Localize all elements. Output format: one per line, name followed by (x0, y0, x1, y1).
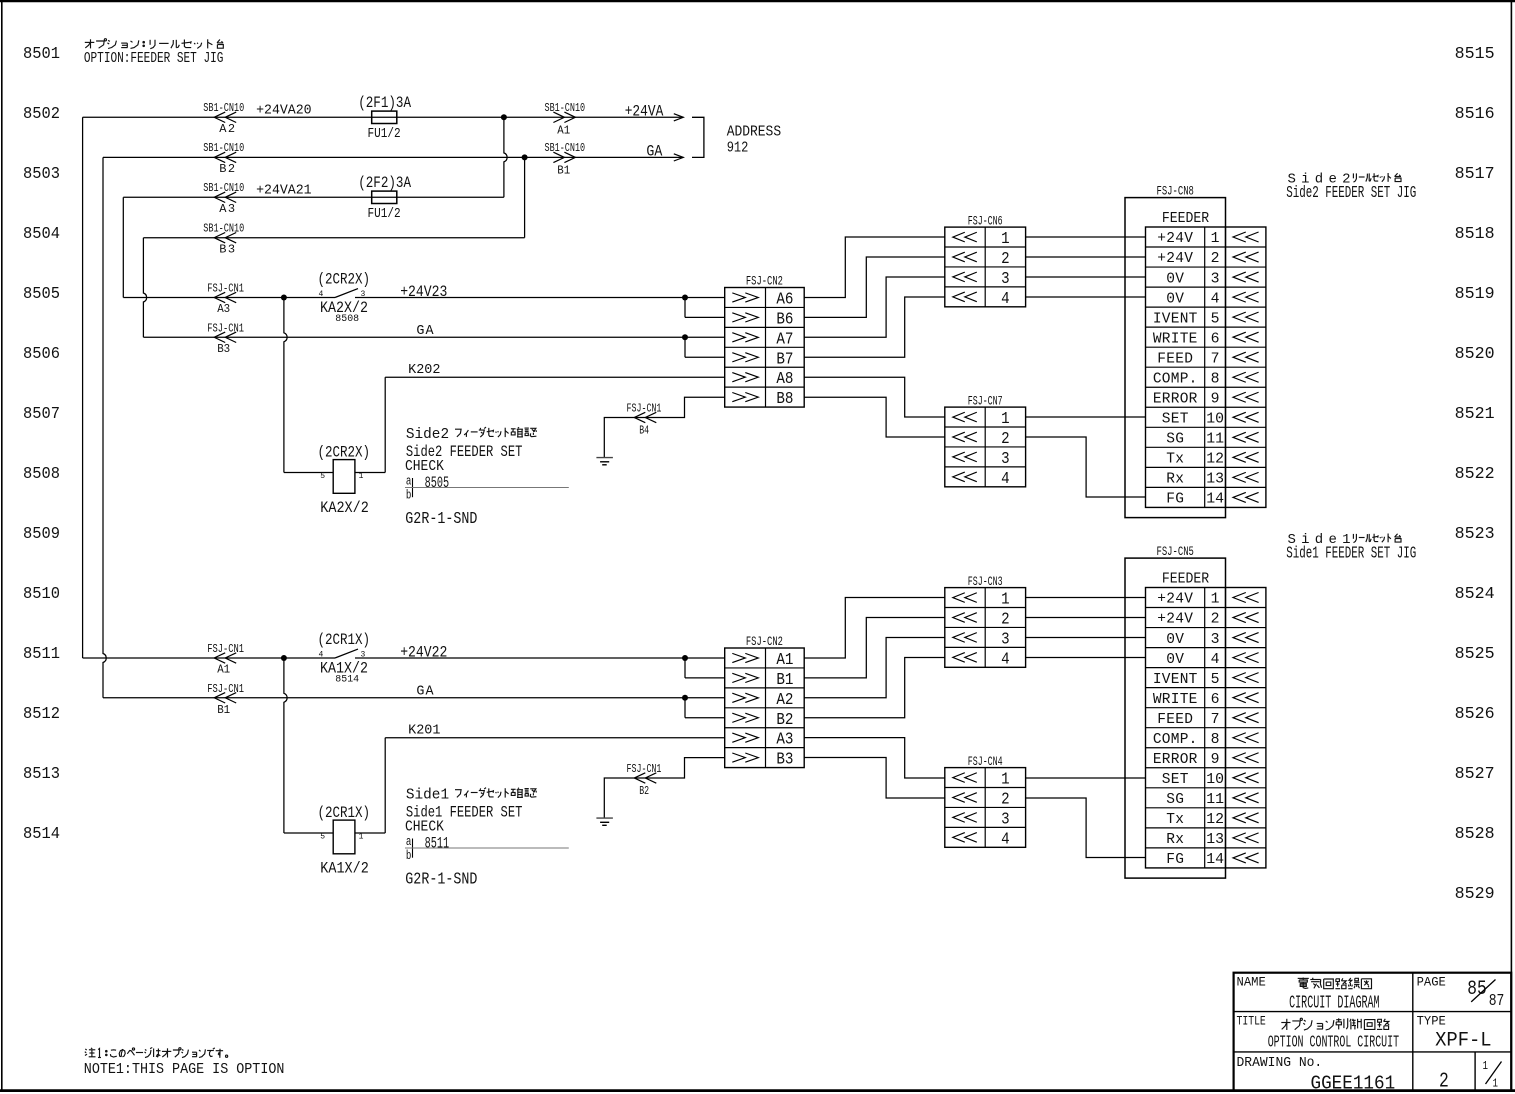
svg-text:GA: GA (416, 684, 434, 699)
wire: GA horizontal from bus to GA arrow (103, 156, 683, 158)
junction at relay coil branch (8505) (281, 295, 287, 301)
connector FSJ-CN7 (945, 407, 1026, 487)
svg-text:B8: B8 (776, 390, 793, 409)
note: this page is option (japanese) (85, 1049, 86, 1050)
svg-text:8519: 8519 (1455, 284, 1495, 303)
svg-text:8508: 8508 (23, 464, 60, 483)
svg-text:8514: 8514 (335, 675, 359, 686)
svg-text:8505: 8505 (23, 284, 60, 303)
svg-text:A3: A3 (219, 202, 235, 216)
svg-text:FSJ-CN1: FSJ-CN1 (207, 682, 244, 696)
svg-text:8516: 8516 (1455, 104, 1495, 123)
relay contact KA1X/2 (2CR1X) pins 4-3 (335, 649, 358, 658)
wire: A8 to CN7-1 (804, 377, 945, 417)
svg-text:8522: 8522 (1455, 464, 1495, 483)
svg-text:3: 3 (1001, 630, 1010, 649)
svg-text:ERROR: ERROR (1153, 391, 1198, 407)
svg-text:+24VA20: +24VA20 (256, 104, 312, 119)
svg-text:+24V22: +24V22 (400, 644, 447, 662)
svg-text:(2F1)3A: (2F1)3A (358, 94, 411, 112)
svg-text:(2CR2X): (2CR2X) (318, 270, 371, 288)
svg-text:G2R-1-SND: G2R-1-SND (405, 510, 477, 529)
svg-text:87: 87 (1489, 992, 1505, 1011)
connector pin SB1-CN10 B1 (chevron right) (553, 152, 575, 162)
svg-text:4: 4 (1001, 290, 1010, 309)
svg-text:12: 12 (1206, 451, 1224, 468)
svg-text:8507: 8507 (23, 404, 60, 423)
svg-text:8517: 8517 (1455, 164, 1495, 183)
svg-text:(2CR2X): (2CR2X) (318, 443, 371, 461)
svg-text:XPF-L: XPF-L (1435, 1030, 1492, 1053)
connector FSJ-CN4 (945, 768, 1026, 848)
wire: CN3-4 to FEEDER 0V 4 (1026, 657, 1146, 659)
svg-text:B7: B7 (776, 350, 793, 369)
svg-text:912: 912 (727, 139, 749, 156)
svg-text:1: 1 (359, 472, 364, 481)
relay contact KA2X/2 (2CR2X) pins 4-3 (335, 289, 358, 298)
svg-text:OPTION:FEEDER SET JIG: OPTION:FEEDER SET JIG (84, 50, 224, 67)
svg-text:GGEE1161: GGEE1161 (1311, 1073, 1396, 1094)
svg-text:4: 4 (319, 290, 324, 299)
svg-text:SET: SET (1162, 772, 1189, 788)
wire: A1 to CN3-1 (804, 598, 945, 659)
svg-text:(2CR1X): (2CR1X) (318, 631, 371, 649)
svg-text:FSJ-CN7: FSJ-CN7 (968, 394, 1003, 409)
svg-text:8528: 8528 (1455, 824, 1495, 843)
connector pin FSJ-CN1 A1 (chevron) (214, 653, 236, 663)
svg-text:8508: 8508 (335, 314, 359, 325)
connector pin FSJ-CN1 A3 (chevron) (214, 292, 236, 302)
svg-text:9: 9 (1211, 751, 1220, 768)
wire: CN4-1 to FEEDER SET 10 (1026, 777, 1146, 779)
svg-text:FU1/2: FU1/2 (368, 126, 401, 142)
svg-text:GA: GA (416, 324, 434, 339)
wire: B2 to CN3-4 (804, 658, 945, 718)
connector pin SB1-CN10 A3 (chevron) (214, 192, 236, 202)
svg-text:B6: B6 (776, 310, 793, 329)
wire: vertical bus from B2 down to 8512 (hop at 8511) (103, 157, 106, 697)
svg-text:3: 3 (1211, 631, 1220, 648)
wire: CN7-2 to FEEDER FG 14 (1026, 437, 1146, 497)
svg-text:A3: A3 (776, 731, 793, 750)
wire: A3 to CN4-1 (804, 738, 945, 778)
svg-text:11: 11 (1206, 791, 1224, 808)
svg-text:A1: A1 (557, 124, 570, 138)
wire: 8505 from bus to contact KA2X/2 (123, 297, 335, 299)
fuse FU1/2 (2F1)3A (372, 111, 397, 123)
svg-text:8514: 8514 (23, 824, 60, 843)
svg-text:FSJ-CN1: FSJ-CN1 (627, 401, 662, 415)
junction GA to B2 branch (682, 695, 688, 701)
svg-text:+24V23: +24V23 (400, 283, 447, 301)
svg-text:3: 3 (1001, 450, 1010, 469)
svg-text:8: 8 (1211, 370, 1220, 387)
svg-text:Rx: Rx (1166, 832, 1184, 848)
svg-text:5: 5 (320, 833, 325, 842)
wire: B7 to CN6-4 (804, 297, 945, 357)
svg-text:K201: K201 (408, 724, 440, 739)
svg-text:10: 10 (1206, 410, 1224, 427)
svg-text:8504: 8504 (23, 224, 60, 243)
svg-text:B4: B4 (639, 424, 649, 438)
svg-text:8: 8 (1211, 731, 1220, 748)
connector pin SB1-CN10 A2 (chevron) (214, 112, 236, 122)
svg-text:4: 4 (319, 651, 324, 660)
wire: CN6-4 to FEEDER 0V 4 (1026, 296, 1146, 298)
svg-text:A2: A2 (219, 122, 235, 136)
svg-text:KA2X/2: KA2X/2 (320, 499, 369, 517)
svg-text:0V: 0V (1166, 271, 1184, 287)
svg-text:B1: B1 (217, 703, 230, 717)
svg-text:8509: 8509 (23, 524, 60, 543)
svg-text:9: 9 (1211, 390, 1220, 407)
svg-text:GA: GA (646, 142, 662, 160)
relay coil KA1X/2 (2CR1X) pins 5-1 (284, 658, 287, 833)
wire: CN3-2 to FEEDER +24V 2 (1026, 617, 1146, 619)
svg-text:IVENT: IVENT (1153, 311, 1198, 327)
svg-text:10: 10 (1206, 771, 1224, 788)
connector pin SB1-CN10 B3 (chevron) (214, 233, 236, 243)
svg-text:B1: B1 (776, 671, 793, 690)
wire: CN7-1 to FEEDER SET 10 (1026, 416, 1146, 418)
svg-text:TITLE: TITLE (1237, 1013, 1267, 1028)
svg-text:2: 2 (1439, 1071, 1449, 1094)
wire: 8512 GA from bus to FSJ-CN2 A2 (103, 697, 725, 699)
svg-text:8511: 8511 (23, 644, 60, 663)
wire: B3 horizontal to GA junction (143, 237, 524, 239)
svg-text:Side2: Side2 (406, 427, 449, 443)
title block frame (1234, 973, 1512, 1091)
svg-text:Side2 FEEDER SET JIG: Side2 FEEDER SET JIG (1286, 184, 1416, 203)
wire: vertical from GA junction down to B3 (524, 157, 526, 237)
svg-text:K202: K202 (408, 363, 440, 378)
svg-text:NOTE1:THIS PAGE IS OPTION: NOTE1:THIS PAGE IS OPTION (84, 1061, 285, 1078)
svg-text:A2: A2 (776, 691, 793, 710)
svg-text:ADDRESS: ADDRESS (727, 125, 781, 141)
junction on GA net (522, 154, 528, 160)
svg-text:8515: 8515 (1455, 44, 1495, 63)
svg-text:B3: B3 (776, 751, 793, 770)
svg-text:B2: B2 (776, 711, 793, 730)
svg-text:1: 1 (1483, 1059, 1489, 1073)
svg-text:WRITE: WRITE (1153, 692, 1198, 708)
junction +24V22 to B1 branch (682, 655, 688, 661)
svg-text:12: 12 (1206, 811, 1224, 828)
svg-text:0V: 0V (1166, 632, 1184, 648)
svg-text:Tx: Tx (1166, 812, 1184, 828)
svg-text:FSJ-CN3: FSJ-CN3 (968, 574, 1003, 589)
svg-text:8501: 8501 (23, 44, 60, 63)
wire: K201 from relay coil to FSJ-CN2 A3 (385, 737, 725, 739)
svg-text:8503: 8503 (23, 164, 60, 183)
svg-text:a: a (406, 835, 412, 849)
svg-text:Rx: Rx (1166, 472, 1184, 488)
ground symbol (top) (596, 457, 613, 459)
wire: CN6-1 to FEEDER +24V 1 (1026, 236, 1146, 238)
svg-text:B3: B3 (217, 342, 230, 356)
connector pin SB1-CN10 A1 (chevron right) (553, 112, 575, 122)
svg-text:G2R-1-SND: G2R-1-SND (405, 871, 477, 890)
wire: CN6-2 to FEEDER +24V 2 (1026, 256, 1146, 258)
wire: B1 to CN3-2 (804, 618, 945, 678)
svg-text:4: 4 (1211, 651, 1220, 668)
svg-text:5: 5 (1211, 671, 1220, 688)
feeder unit FSJ-CN8 Side2 (1125, 198, 1226, 518)
svg-text:SG: SG (1166, 792, 1184, 808)
right line-number column 8515-8529 (1455, 44, 1495, 903)
ground symbol (bottom) (596, 817, 613, 819)
wire: CN6-3 to FEEDER 0V 3 (1026, 276, 1146, 278)
svg-text:A7: A7 (776, 330, 793, 349)
svg-text:0V: 0V (1166, 291, 1184, 307)
svg-text:FG: FG (1166, 492, 1184, 508)
svg-text:B3: B3 (219, 243, 235, 257)
svg-text:FEED: FEED (1157, 351, 1193, 367)
svg-text:8510: 8510 (23, 584, 60, 603)
svg-text:FG: FG (1166, 852, 1184, 868)
connector FSJ-CN2 (bottom) pins A1-B3 (725, 648, 805, 768)
svg-text:8529: 8529 (1455, 884, 1495, 903)
svg-text:2: 2 (1211, 611, 1220, 628)
svg-text:1: 1 (1001, 591, 1010, 610)
svg-text:NAME: NAME (1237, 974, 1267, 989)
svg-text:DRAWING No.: DRAWING No. (1237, 1055, 1323, 1071)
svg-text:4: 4 (1001, 650, 1010, 669)
svg-text:FSJ-CN1: FSJ-CN1 (207, 321, 244, 335)
svg-text:(2CR1X): (2CR1X) (318, 804, 371, 822)
svg-text:+24VA: +24VA (625, 103, 664, 121)
svg-text:1: 1 (1001, 410, 1010, 429)
svg-text:8524: 8524 (1455, 584, 1495, 603)
connector pin SB1-CN10 B2 (chevron) (214, 152, 236, 162)
connector FSJ-CN6 (945, 227, 1026, 307)
wire: contact output +24V22 to FSJ-CN2 A1 (355, 657, 725, 659)
svg-text:CHECK: CHECK (405, 819, 444, 836)
svg-text:WRITE: WRITE (1153, 331, 1198, 347)
svg-text:FEEDER: FEEDER (1162, 211, 1210, 227)
svg-text:8506: 8506 (23, 344, 60, 363)
svg-text:COMP.: COMP. (1153, 732, 1198, 748)
svg-text:+24V: +24V (1157, 231, 1193, 247)
svg-text:FSJ-CN8: FSJ-CN8 (1157, 184, 1194, 199)
svg-text:+24VA21: +24VA21 (256, 184, 312, 199)
wire: B3 to CN4-2 (804, 758, 945, 799)
svg-text:8520: 8520 (1455, 344, 1495, 363)
svg-text:8518: 8518 (1455, 224, 1495, 243)
svg-text:SB1-CN10: SB1-CN10 (203, 141, 244, 155)
wire: contact output +24V23 to FSJ-CN2 A6 (355, 297, 725, 299)
svg-text:6: 6 (1211, 691, 1220, 708)
svg-text:FSJ-CN2: FSJ-CN2 (746, 634, 783, 649)
wire: vertical bus from 8502/A2 down to 8511 (82, 117, 84, 658)
svg-text:SB1-CN10: SB1-CN10 (203, 222, 244, 236)
wire: A7 to CN6-3 (804, 277, 945, 337)
wire: A2 to CN3-3 (804, 638, 945, 698)
svg-text:Side1 FEEDER SET JIG: Side1 FEEDER SET JIG (1286, 545, 1416, 564)
svg-text:8505: 8505 (425, 474, 450, 492)
svg-text:5: 5 (320, 472, 325, 481)
wire: B6 to CN6-2 (804, 257, 945, 317)
svg-text:B1: B1 (557, 164, 570, 178)
junction on +24VA net (501, 114, 507, 120)
svg-text:a: a (406, 474, 412, 488)
connector pin FSJ-CN1 B4 (chevron) (634, 412, 656, 422)
svg-text:b: b (406, 849, 412, 863)
svg-text:8526: 8526 (1455, 704, 1495, 723)
svg-text:6: 6 (1211, 330, 1220, 347)
svg-text:4: 4 (1211, 290, 1220, 307)
svg-text:Tx: Tx (1166, 452, 1184, 468)
svg-text:8527: 8527 (1455, 764, 1495, 783)
bracket to ADDRESS 912 (692, 117, 704, 157)
wire: 8506 GA from bus to FSJ-CN2 A7 (143, 336, 724, 338)
svg-text:1: 1 (1001, 771, 1010, 790)
svg-text:1: 1 (359, 833, 364, 842)
svg-text:KA1X/2: KA1X/2 (320, 859, 369, 877)
svg-text:ERROR: ERROR (1153, 752, 1198, 768)
wire: vertical from A3 down to 8505 (122, 197, 124, 297)
svg-text:4: 4 (1001, 830, 1010, 849)
wire: FSJ-CN2 B3 to FSJ-CN1 B2 and ground (604, 758, 724, 819)
svg-text:+24V: +24V (1157, 592, 1193, 608)
svg-text:7: 7 (1211, 350, 1220, 367)
wire: B8 to CN7-2 (804, 397, 945, 437)
svg-text:A1: A1 (217, 662, 230, 676)
svg-text:11: 11 (1206, 431, 1224, 448)
feeder unit FSJ-CN5 Side1 (1125, 558, 1226, 878)
svg-text:B2: B2 (219, 162, 235, 176)
wire: fuse 2F2 output up to +24VA junction (hop over GA) (504, 117, 507, 197)
svg-text:13: 13 (1206, 831, 1224, 848)
svg-text:3: 3 (1001, 810, 1010, 829)
svg-text:FEEDER: FEEDER (1162, 571, 1210, 587)
svg-text:8502: 8502 (23, 104, 60, 123)
svg-text:FSJ-CN6: FSJ-CN6 (968, 213, 1003, 228)
svg-text:FSJ-CN5: FSJ-CN5 (1157, 544, 1194, 559)
wire: 8511 from bus to contact KA1X/2 (83, 657, 335, 659)
svg-text:8521: 8521 (1455, 404, 1495, 423)
svg-text:2: 2 (1211, 250, 1220, 267)
svg-text:1: 1 (1001, 230, 1010, 249)
svg-text:3: 3 (1001, 270, 1010, 289)
svg-text:1: 1 (1211, 591, 1220, 608)
svg-text:4: 4 (1001, 470, 1010, 489)
svg-text:FSJ-CN1: FSJ-CN1 (627, 762, 662, 776)
wire: A6 to CN6-1 (804, 237, 945, 298)
svg-text:FEED: FEED (1157, 712, 1193, 728)
svg-text:7: 7 (1211, 711, 1220, 728)
svg-text:5: 5 (1211, 310, 1220, 327)
left line-number column 8501-8514 (23, 44, 60, 843)
connector FSJ-CN2 (top) pins A6-B8 (725, 288, 805, 408)
svg-text:FSJ-CN4: FSJ-CN4 (968, 754, 1003, 769)
svg-text:CIRCUIT DIAGRAM: CIRCUIT DIAGRAM (1289, 994, 1380, 1014)
svg-text:1: 1 (1493, 1077, 1499, 1091)
svg-text:2: 2 (1001, 250, 1010, 269)
svg-text:TYPE: TYPE (1417, 1013, 1447, 1028)
svg-text:SB1-CN10: SB1-CN10 (203, 101, 244, 115)
fuse FU1/2 (2F2)3A (372, 191, 397, 203)
wire: CN3-3 to FEEDER 0V 3 (1026, 637, 1146, 639)
svg-text:+24V: +24V (1157, 251, 1193, 267)
junction +24V23 to B6 branch (682, 295, 688, 301)
svg-text:A1: A1 (776, 651, 793, 670)
svg-text:CHECK: CHECK (405, 458, 444, 475)
svg-text:Side1: Side1 (406, 788, 449, 804)
svg-text:A3: A3 (217, 302, 230, 316)
junction at relay coil branch (8511) (281, 655, 287, 661)
svg-text:2: 2 (1001, 610, 1010, 629)
svg-text:PAGE: PAGE (1417, 974, 1447, 989)
svg-text:A8: A8 (776, 370, 793, 389)
svg-text:OPTION CONTROL CIRCUIT: OPTION CONTROL CIRCUIT (1268, 1034, 1399, 1053)
svg-text:SG: SG (1166, 432, 1184, 448)
svg-text:(2F2)3A: (2F2)3A (358, 174, 411, 192)
wire: vertical from B3 down to 8506 (hop at 8505) (143, 238, 146, 338)
svg-text:FSJ-CN2: FSJ-CN2 (746, 273, 783, 288)
svg-text:8512: 8512 (23, 704, 60, 723)
svg-text:3: 3 (1211, 270, 1220, 287)
svg-text:0V: 0V (1166, 652, 1184, 668)
svg-text:COMP.: COMP. (1153, 371, 1198, 387)
svg-text:2: 2 (1001, 430, 1010, 449)
svg-text:14: 14 (1206, 491, 1224, 508)
svg-text:SET: SET (1162, 411, 1189, 427)
junction GA to B7 branch (682, 334, 688, 340)
arrow to ADDRESS 912 (GA) (674, 154, 684, 161)
svg-text:2: 2 (1001, 790, 1010, 809)
svg-text:FU1/2: FU1/2 (368, 206, 401, 222)
svg-text:IVENT: IVENT (1153, 672, 1198, 688)
svg-text:FSJ-CN1: FSJ-CN1 (207, 642, 244, 656)
svg-text:B2: B2 (639, 784, 649, 798)
svg-text:8511: 8511 (425, 834, 450, 852)
header label: option feeder set jig (japanese) (85, 41, 95, 43)
svg-text:b: b (406, 489, 412, 503)
wire: CN3-1 to FEEDER +24V 1 (1026, 597, 1146, 599)
wire: CN4-2 to FEEDER FG 14 (1026, 798, 1146, 858)
svg-text:8525: 8525 (1455, 644, 1495, 663)
wire: 8502 +24VA20 horizontal from bus to fuse FU1/2 (83, 116, 684, 118)
connector FSJ-CN3 (945, 588, 1026, 668)
svg-text:A6: A6 (776, 290, 793, 309)
wire: +24VA21 horizontal from bus to fuse 2F2 (123, 196, 504, 198)
svg-text:SB1-CN10: SB1-CN10 (203, 181, 244, 195)
wire: FSJ-CN2 B8 to FSJ-CN1 B4 and ground (604, 397, 724, 457)
svg-text:1: 1 (1211, 230, 1220, 247)
svg-text:14: 14 (1206, 851, 1224, 868)
svg-text:13: 13 (1206, 471, 1224, 488)
relay coil KA2X/2 (2CR2X) pins 5-1 (284, 298, 287, 473)
svg-text:SB1-CN10: SB1-CN10 (545, 141, 586, 155)
svg-text:SB1-CN10: SB1-CN10 (545, 101, 586, 115)
svg-text:8513: 8513 (23, 764, 60, 783)
connector pin FSJ-CN1 B3 (chevron) (214, 332, 236, 342)
connector pin FSJ-CN1 B1 (chevron) (214, 693, 236, 703)
svg-text:FSJ-CN1: FSJ-CN1 (207, 281, 244, 295)
arrow to ADDRESS 912 (+24VA) (674, 114, 684, 121)
svg-text:+24V: +24V (1157, 612, 1193, 628)
wire: K202 from relay coil to FSJ-CN2 A8 (385, 376, 725, 378)
connector pin FSJ-CN1 B2 (chevron) (634, 773, 656, 783)
svg-text:8523: 8523 (1455, 524, 1495, 543)
